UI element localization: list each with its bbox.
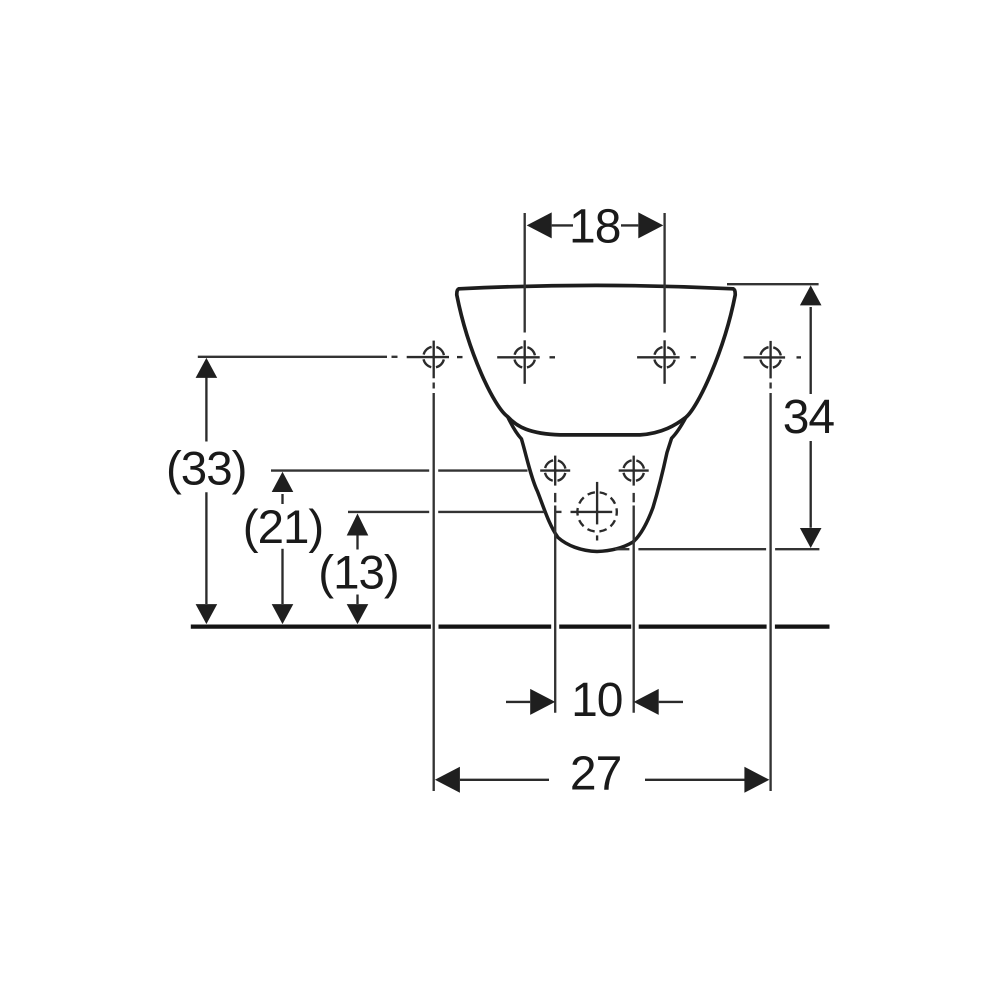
drain hole dashed circle bbox=[571, 482, 617, 541]
dimension 18 bbox=[552, 224, 639, 226]
extension line drain-left vertical to 10 bbox=[554, 493, 556, 502]
svg-text:(13): (13) bbox=[318, 547, 398, 600]
dimension (33) bbox=[205, 377, 207, 604]
svg-text:(33): (33) bbox=[166, 442, 246, 495]
dimension (21) bbox=[281, 494, 283, 604]
mounting hole crosshair far-right bbox=[744, 341, 801, 379]
dimension 10 bbox=[506, 701, 683, 703]
extension line 13-top horizontal bbox=[348, 511, 429, 513]
bidet lower protrusion (trap/drain housing) bbox=[508, 417, 686, 552]
fixing hole crosshair lower-left bbox=[540, 456, 570, 486]
mounting hole crosshair far-left bbox=[407, 341, 463, 379]
dimension (13) bbox=[356, 536, 358, 605]
svg-text:27: 27 bbox=[570, 748, 621, 801]
bidet body outline bbox=[457, 285, 735, 435]
fixing hole crosshair lower-right bbox=[619, 456, 649, 486]
svg-text:10: 10 bbox=[571, 674, 622, 727]
extension line right-outer vertical to 27 bbox=[769, 383, 771, 389]
extension line 34-bottom horizontal bbox=[615, 548, 629, 550]
floor line bbox=[191, 624, 830, 628]
extension line 18-right vertical bbox=[663, 213, 665, 333]
extension line 18-left vertical bbox=[524, 213, 526, 333]
mounting hole crosshair upper-left bbox=[497, 340, 555, 384]
extension line 33-top horizontal bbox=[198, 356, 387, 358]
svg-text:(21): (21) bbox=[243, 501, 323, 554]
extension line drain-right vertical to 10 bbox=[633, 493, 635, 502]
mounting hole crosshair upper-right bbox=[637, 340, 696, 384]
svg-text:18: 18 bbox=[569, 200, 620, 253]
dimension 34 bbox=[810, 307, 812, 528]
extension line 34-top horizontal bbox=[727, 283, 819, 285]
svg-text:34: 34 bbox=[783, 391, 835, 444]
extension line 21-top horizontal bbox=[271, 469, 429, 471]
dimension 27 bbox=[460, 779, 745, 781]
extension line left-outer vertical to 27 bbox=[433, 383, 435, 389]
